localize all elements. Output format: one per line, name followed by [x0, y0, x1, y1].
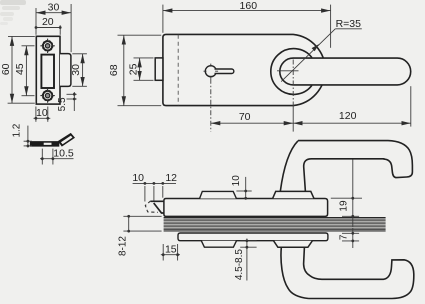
svg-text:5.5: 5.5: [57, 97, 68, 111]
dim 45 (hole spacing): [22, 46, 35, 96]
svg-text:7: 7: [339, 234, 350, 240]
handle lower flange: [274, 241, 313, 248]
svg-text:10: 10: [132, 172, 144, 184]
outside plate (section): [178, 233, 328, 241]
dim 19 (case thickness): [331, 160, 362, 228]
keyhole centerline: [210, 79, 212, 132]
svg-text:160: 160: [240, 0, 258, 12]
dim 4.5-8.5: [240, 239, 256, 281]
svg-text:10: 10: [36, 107, 48, 119]
dim 30 (dust box height), right: [72, 54, 87, 87]
dim 70: [211, 105, 293, 132]
dim 8-12 (door), left: [123, 216, 161, 231]
svg-text:10.5: 10.5: [53, 148, 74, 160]
faceplate dashed joint line: [177, 35, 179, 105]
dim 20 (plate width): [36, 25, 60, 35]
handle top arm: [298, 141, 412, 178]
dim 7 (plate thickness): [342, 229, 359, 249]
svg-text:120: 120: [339, 110, 357, 122]
dim 1.2 (thickness): [24, 126, 32, 148]
dim 60 (plate height), left: [8, 36, 35, 103]
dim 25 (bolt): [134, 58, 154, 80]
handle upper neck: [280, 141, 311, 192]
dim 120: [293, 86, 411, 126]
rose circle (outer, broken by lever): [271, 49, 312, 95]
svg-text:15: 15: [165, 243, 177, 255]
svg-text:68: 68: [108, 64, 120, 76]
svg-text:20: 20: [42, 16, 54, 28]
latch bolt (left protrusion): [155, 58, 163, 80]
dim 15: [161, 244, 180, 261]
dust box (protrusion right of plate): [60, 54, 71, 87]
rose center crosshair: [277, 70, 299, 72]
lock body outline: [163, 34, 325, 105]
screw hole bottom: [40, 88, 54, 102]
latch bolt nose (section): [151, 201, 164, 213]
slot in side bar: [44, 143, 52, 145]
svg-text:19: 19: [338, 200, 349, 212]
svg-text:12: 12: [165, 172, 177, 184]
svg-text:8-12: 8-12: [118, 236, 129, 256]
handle lever (capsule): [280, 58, 411, 85]
svg-text:45: 45: [14, 63, 26, 75]
handle bottom arm: [309, 260, 414, 299]
latch cutout: [41, 55, 54, 88]
svg-text:25: 25: [127, 63, 139, 75]
svg-text:10: 10: [231, 175, 242, 187]
plate side bar: [30, 141, 59, 147]
dashed strike lip (section): [145, 201, 158, 212]
dim 10 and 12, section top: [133, 183, 176, 201]
bent lip: [58, 133, 75, 147]
svg-text:70: 70: [239, 111, 251, 123]
strike plate outline: [36, 36, 60, 104]
door panel (hatched): [164, 218, 386, 231]
dim 10.5 (slot width): [40, 149, 74, 165]
dim 160, top: [163, 5, 331, 48]
svg-text:1.2: 1.2: [12, 123, 23, 137]
cylinder bulge below plate: [201, 241, 236, 248]
dim 30 (plate+box width), top: [36, 4, 71, 52]
svg-text:4.5-8.5: 4.5-8.5: [234, 249, 245, 281]
screw hole top: [40, 39, 54, 53]
lock case (section): [164, 199, 328, 217]
case top bulge: [200, 191, 237, 198]
dim 68, left: [118, 35, 162, 106]
dim 10 (bulge), rotated: [236, 177, 251, 199]
svg-text:R=35: R=35: [336, 18, 362, 30]
R=35 leader: [281, 18, 362, 82]
faint scan smudges (paper texture): [0, 0, 26, 25]
svg-text:30: 30: [70, 64, 82, 76]
dim 10 (hole offset), bottom: [34, 107, 51, 122]
dim 5.5: [67, 92, 77, 111]
svg-text:60: 60: [0, 63, 12, 75]
keyhole: [204, 64, 234, 79]
handle lower neck: [281, 247, 322, 298]
svg-text:30: 30: [48, 2, 60, 14]
handle upper flange: [273, 191, 314, 198]
